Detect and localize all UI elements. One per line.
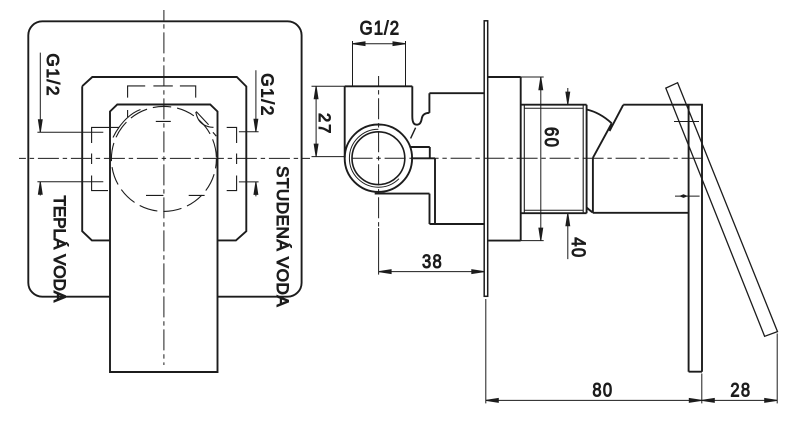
40 dimension	[567, 88, 569, 259]
svg-text:TEPLÁ VODA: TEPLÁ VODA	[50, 196, 69, 303]
right port extension lines	[239, 132, 259, 182]
hidden dash marks below center	[146, 194, 205, 196]
handle top-right corner leaf arcs	[196, 112, 216, 137]
side view horizontal centerline	[352, 157, 703, 159]
front port outer circle	[345, 125, 412, 192]
dashed rect 1 bottom dash	[128, 110, 171, 121]
front port inner circle	[352, 132, 405, 185]
60 dimension	[540, 77, 542, 240]
60 cylinder	[488, 77, 521, 241]
svg-text:60: 60	[541, 127, 562, 148]
svg-text:STUDENÁ VODA: STUDENÁ VODA	[273, 166, 292, 307]
left port extension lines	[37, 132, 103, 182]
vertical centerline (front view)	[163, 10, 165, 365]
svg-text:80: 80	[592, 379, 613, 401]
flare slants	[593, 105, 623, 158]
side view vertical centerline	[378, 76, 380, 227]
60 extension lines	[521, 77, 544, 241]
dashed rect 2 (valve body hidden outline)	[92, 127, 120, 190]
svg-text:40: 40	[568, 237, 589, 258]
38 dimension	[378, 228, 380, 275]
sleeve thread root lines	[524, 108, 583, 210]
escutcheon (chamfered square)	[82, 77, 246, 240]
handle body (front view)	[110, 105, 218, 373]
handle bar (closed position)	[689, 105, 702, 372]
right G1/2 dimension line + arrows	[255, 70, 257, 196]
pivot mark with small arrow	[675, 195, 700, 197]
handle top-left corner arc	[113, 110, 141, 138]
lever (open position, tilted)	[666, 83, 778, 337]
svg-text:38: 38	[422, 251, 443, 273]
sleeve chamfer lines	[524, 105, 583, 214]
wall plate (front view, rounded square)	[28, 21, 301, 296]
threaded sleeve 40	[521, 105, 587, 214]
svg-text:G1/2: G1/2	[360, 17, 400, 38]
U fillet between boss and block	[412, 113, 429, 125]
wall plate (side view)	[484, 21, 488, 297]
svg-text:28: 28	[730, 379, 751, 401]
rear block	[429, 93, 484, 224]
handle base flare arcs	[587, 110, 612, 124]
horizontal centerline (front view)	[19, 157, 310, 159]
cartridge dashed circle	[111, 106, 216, 211]
intersection edge mark	[411, 128, 416, 139]
svg-text:G1/2: G1/2	[258, 73, 278, 117]
80 dimension	[486, 299, 702, 403]
G1/2 top dimension	[353, 41, 406, 86]
thread arc	[349, 129, 399, 187]
handle base box	[593, 105, 703, 213]
top boss (vertical G1/2 port)	[345, 86, 413, 157]
joint line	[674, 121, 699, 123]
svg-text:27: 27	[315, 113, 333, 135]
svg-text:G1/2: G1/2	[43, 53, 63, 97]
body bottom step	[375, 158, 435, 224]
28 dimension	[776, 334, 778, 404]
neck (outlet port to block)	[410, 147, 436, 158]
left G1/2 dimension line + arrows	[39, 53, 41, 196]
27 dimension	[312, 86, 346, 156]
dashed rect 1 (upper hidden box)	[128, 86, 196, 98]
